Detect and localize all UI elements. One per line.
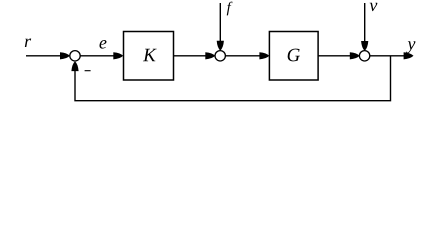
wire feedback from output line down, left and up to S1 [75,56,391,101]
block G (plant) [269,32,318,81]
wire v to S3 [364,3,366,42]
node e (error signal label) [99,40,106,49]
minus sign at S1 [85,70,91,72]
wire r to summing junction S1 [26,55,63,57]
node y (output label) [406,41,416,53]
wire S1 to block K [80,55,114,57]
node f (disturbance label) [227,2,233,16]
wire S2 to block G [225,55,260,57]
summing junction S3 [359,51,369,61]
wire G to summing junction S3 [318,55,351,57]
node r (input label) [25,39,31,47]
wire S3 to output y [370,55,405,57]
summing junction S2 [215,51,225,61]
wire f to S2 [219,3,221,42]
summing junction S1 [70,51,80,61]
node v (noise label) [370,3,378,11]
block K (controller) [124,32,174,81]
wire K to summing junction S2 [174,55,207,57]
